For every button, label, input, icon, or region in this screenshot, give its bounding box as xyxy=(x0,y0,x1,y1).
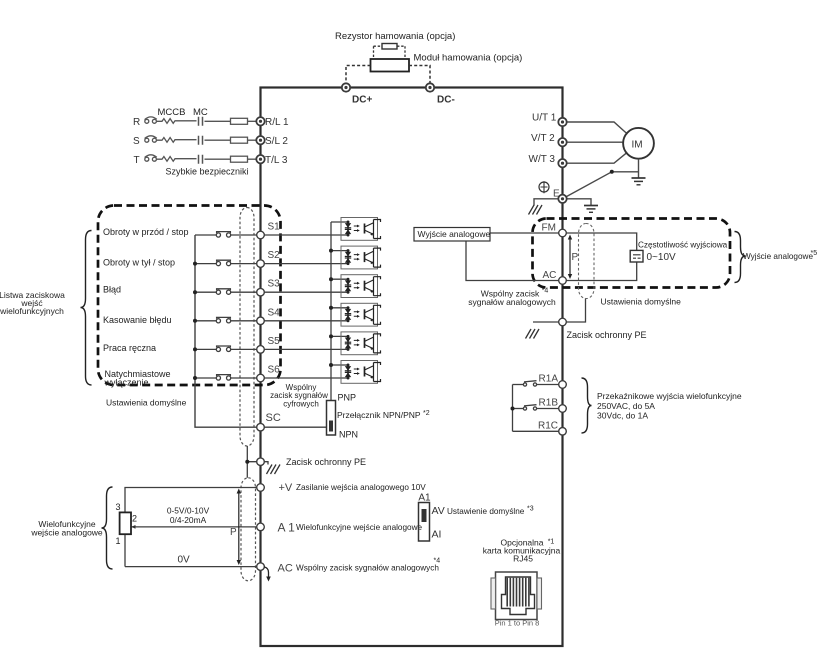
svg-text:S/L 2: S/L 2 xyxy=(265,136,288,147)
svg-text:30Vdc, do 1A: 30Vdc, do 1A xyxy=(597,411,648,421)
svg-text:R1B: R1B xyxy=(539,398,559,409)
svg-text:3: 3 xyxy=(116,502,121,512)
svg-text:Przekaźnikowe wyjścia wielofun: Przekaźnikowe wyjścia wielofunkcyjne xyxy=(597,391,742,401)
svg-text:wejście analogowe: wejście analogowe xyxy=(30,528,103,538)
svg-text:FM: FM xyxy=(542,223,556,234)
svg-text:Zasilanie wejścia analogowego: Zasilanie wejścia analogowego 10V xyxy=(296,483,426,492)
svg-text:*4: *4 xyxy=(434,558,441,565)
svg-text:NPN: NPN xyxy=(339,429,358,439)
svg-text:PNP: PNP xyxy=(338,393,357,403)
svg-text:S3: S3 xyxy=(268,279,281,290)
svg-text:U/T 1: U/T 1 xyxy=(532,113,557,124)
svg-text:Częstotliwość wyjściowa: Częstotliwość wyjściowa xyxy=(638,241,728,250)
svg-text:*1: *1 xyxy=(548,539,555,546)
svg-text:*3: *3 xyxy=(527,506,534,513)
svg-text:sygnałów analogowych: sygnałów analogowych xyxy=(468,297,556,307)
svg-text:0V: 0V xyxy=(178,555,191,566)
svg-text:Praca ręczna: Praca ręczna xyxy=(103,343,156,353)
svg-text:MCCB: MCCB xyxy=(158,107,186,118)
svg-text:Wyjście analogowe: Wyjście analogowe xyxy=(743,252,813,261)
svg-text:Moduł hamowania (opcja): Moduł hamowania (opcja) xyxy=(414,53,523,64)
svg-text:Obroty w tył / stop: Obroty w tył / stop xyxy=(103,257,175,267)
svg-text:S: S xyxy=(133,136,140,147)
svg-text:Wielofunkcyjne wejście analogo: Wielofunkcyjne wejście analogowe xyxy=(296,523,423,532)
svg-text:S6: S6 xyxy=(268,365,281,376)
svg-text:Zacisk ochronny PE: Zacisk ochronny PE xyxy=(286,457,366,467)
svg-text:Obroty w przód / stop: Obroty w przód / stop xyxy=(103,227,189,237)
svg-text:DC-: DC- xyxy=(437,95,455,106)
svg-text:V/T 2: V/T 2 xyxy=(531,133,555,144)
svg-text:Rezystor hamowania (opcja): Rezystor hamowania (opcja) xyxy=(335,31,455,42)
svg-text:S1: S1 xyxy=(268,222,281,233)
svg-text:R1C: R1C xyxy=(538,421,558,432)
svg-text:Szybkie bezpieczniki: Szybkie bezpieczniki xyxy=(166,167,249,177)
svg-text:T/L 3: T/L 3 xyxy=(265,155,288,166)
svg-text:Przełącznik NPN/PNP: Przełącznik NPN/PNP xyxy=(337,410,421,420)
svg-text:Ustawienia domyślne: Ustawienia domyślne xyxy=(106,398,187,408)
svg-text:Pin 1 to Pin 8: Pin 1 to Pin 8 xyxy=(495,619,540,628)
svg-text:+V: +V xyxy=(279,482,293,494)
svg-text:R/L 1: R/L 1 xyxy=(265,117,289,128)
svg-text:cyfrowych: cyfrowych xyxy=(283,400,319,409)
svg-text:AI: AI xyxy=(432,529,442,541)
svg-text:IM: IM xyxy=(632,139,643,150)
svg-text:Ustawienie domyślne: Ustawienie domyślne xyxy=(447,507,525,516)
svg-text:Wyjście analogowe: Wyjście analogowe xyxy=(418,229,491,239)
svg-text:RJ45: RJ45 xyxy=(513,554,533,564)
svg-text:Błąd: Błąd xyxy=(103,285,121,295)
svg-text:AC: AC xyxy=(278,563,293,575)
svg-text:P: P xyxy=(230,527,237,538)
svg-text:R: R xyxy=(133,117,140,128)
svg-text:250VAC, do 5A: 250VAC, do 5A xyxy=(597,401,655,411)
svg-text:DC+: DC+ xyxy=(352,95,372,106)
svg-text:Wspólny zacisk sygnałów analog: Wspólny zacisk sygnałów analogowych xyxy=(296,564,439,573)
svg-text:S4: S4 xyxy=(268,307,281,318)
svg-text:S2: S2 xyxy=(268,250,281,261)
svg-text:1: 1 xyxy=(116,536,121,546)
svg-text:A1: A1 xyxy=(418,493,431,504)
svg-text:Kasowanie błędu: Kasowanie błędu xyxy=(103,315,172,325)
svg-text:*2: *2 xyxy=(423,410,430,417)
svg-text:0~10V: 0~10V xyxy=(647,252,677,263)
svg-text:Zacisk ochronny PE: Zacisk ochronny PE xyxy=(567,330,647,340)
svg-text:0/4-20mA: 0/4-20mA xyxy=(170,515,207,525)
svg-text:T: T xyxy=(134,155,140,166)
svg-text:AV: AV xyxy=(432,505,445,517)
svg-text:2: 2 xyxy=(132,514,137,524)
svg-text:AC: AC xyxy=(543,270,557,281)
svg-text:A 1: A 1 xyxy=(278,521,296,535)
svg-text:wyłączenie: wyłączenie xyxy=(104,377,149,387)
svg-text:W/T 3: W/T 3 xyxy=(529,154,556,165)
svg-text:Ustawienia domyślne: Ustawienia domyślne xyxy=(601,297,682,307)
svg-text:*5: *5 xyxy=(811,250,818,257)
svg-text:S5: S5 xyxy=(268,336,281,347)
svg-text:SC: SC xyxy=(266,412,281,424)
svg-text:MC: MC xyxy=(193,107,208,118)
svg-text:E: E xyxy=(553,189,560,200)
svg-text:*4: *4 xyxy=(542,288,549,295)
svg-text:P: P xyxy=(572,252,579,263)
svg-text:wielofunkcyjnych: wielofunkcyjnych xyxy=(0,306,64,316)
svg-text:R1A: R1A xyxy=(539,374,559,385)
